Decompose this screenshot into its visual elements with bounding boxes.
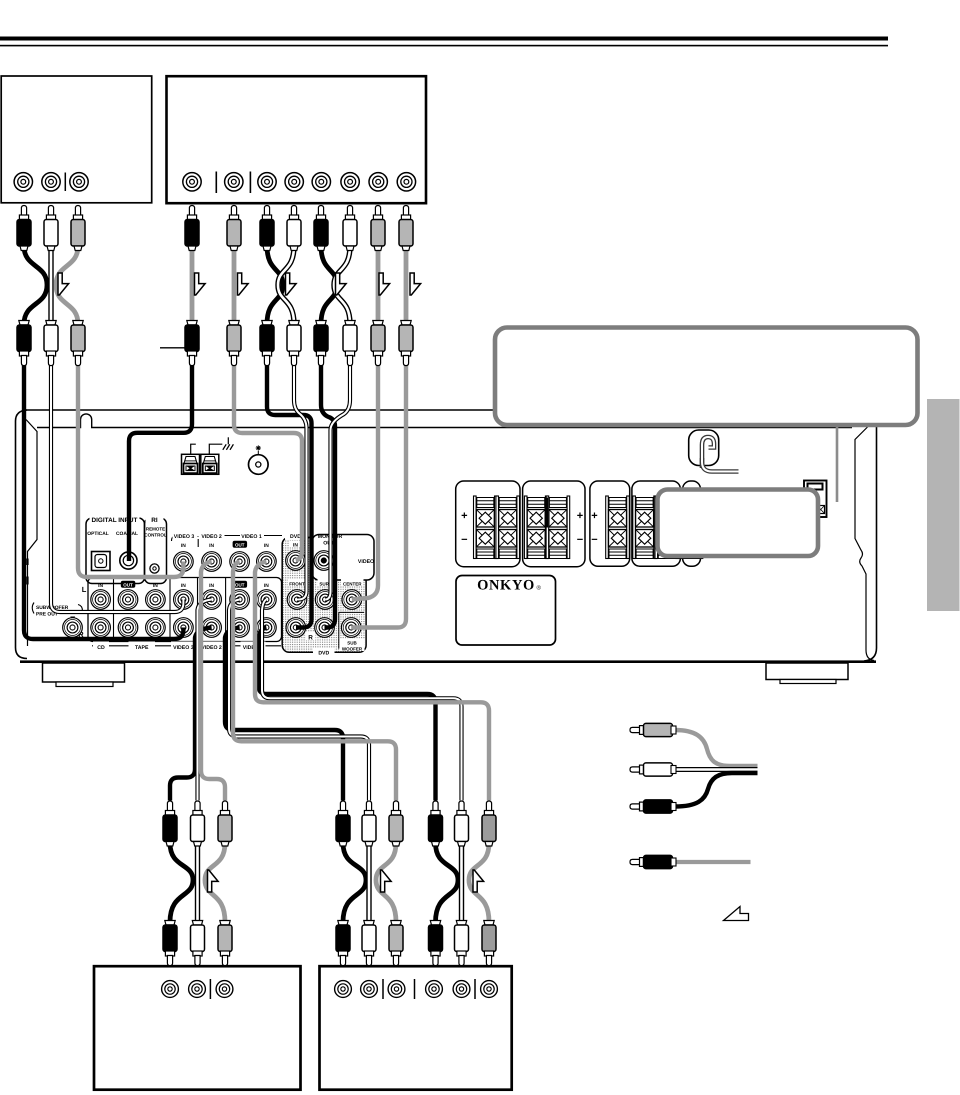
svg-text:OPTICAL: OPTICAL bbox=[87, 531, 108, 537]
svg-text:VIDEO 3: VIDEO 3 bbox=[174, 534, 195, 540]
svg-text:IN: IN bbox=[264, 583, 269, 589]
svg-text:IN: IN bbox=[293, 543, 298, 549]
svg-text:IN: IN bbox=[264, 543, 269, 549]
svg-text:−: − bbox=[577, 534, 583, 546]
svg-text:OUT: OUT bbox=[235, 583, 245, 588]
svg-text:DVD: DVD bbox=[318, 650, 329, 656]
svg-text:CENTER: CENTER bbox=[343, 581, 362, 586]
svg-text:IN: IN bbox=[209, 583, 214, 589]
svg-text:+: + bbox=[591, 510, 597, 522]
svg-text:VIDEO 1: VIDEO 1 bbox=[241, 534, 262, 540]
svg-text:RI: RI bbox=[151, 517, 158, 524]
svg-text:CD: CD bbox=[97, 645, 105, 651]
svg-text:SUB: SUB bbox=[347, 640, 357, 645]
svg-text:IN: IN bbox=[181, 583, 186, 589]
svg-text:VIDEO 3: VIDEO 3 bbox=[173, 645, 194, 651]
svg-text:DVD: DVD bbox=[290, 534, 301, 540]
svg-text:FRONT: FRONT bbox=[289, 581, 305, 586]
svg-text:REMOTE: REMOTE bbox=[146, 527, 165, 532]
svg-text:CONTROL: CONTROL bbox=[144, 533, 166, 538]
svg-text:+: + bbox=[461, 510, 467, 522]
svg-text:WOOFER: WOOFER bbox=[342, 646, 363, 651]
svg-text:ONKYO: ONKYO bbox=[477, 578, 535, 594]
svg-text:VIDEO: VIDEO bbox=[358, 559, 374, 565]
svg-text:VIDEO 2: VIDEO 2 bbox=[201, 645, 222, 651]
svg-text:−: − bbox=[591, 534, 597, 546]
svg-text:IN: IN bbox=[181, 543, 186, 549]
svg-text:®: ® bbox=[537, 585, 542, 592]
svg-text:L: L bbox=[82, 585, 87, 594]
svg-text:VIDEO 2: VIDEO 2 bbox=[201, 534, 222, 540]
svg-text:TAPE: TAPE bbox=[135, 645, 149, 651]
svg-text:IN: IN bbox=[209, 543, 214, 549]
svg-text:IN: IN bbox=[153, 583, 158, 589]
svg-text:R: R bbox=[308, 634, 313, 641]
svg-text:-: - bbox=[197, 534, 199, 540]
svg-text:OUT: OUT bbox=[123, 583, 133, 588]
svg-text:OUT: OUT bbox=[235, 543, 245, 548]
svg-text:−: − bbox=[461, 534, 467, 546]
svg-text:IN: IN bbox=[98, 583, 103, 589]
svg-text:+: + bbox=[577, 510, 583, 522]
